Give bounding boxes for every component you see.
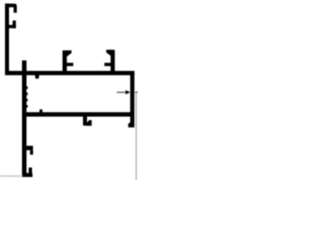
right wall: [130, 71, 134, 127]
right wall bottom hook: [128, 122, 131, 128]
glazing stub 1 mid arm: [66, 63, 73, 66]
faint neighbour profile line bottom-left: [0, 175, 23, 177]
mid wall (screw channel wall): [22, 60, 27, 177]
bottom C-channel bottom arm: [22, 173, 33, 177]
top C-channel top arm: [5, 4, 17, 13]
bump above second bar: [40, 109, 43, 112]
glazing stub 1 vertical: [63, 50, 67, 72]
glazing stub 2 vertical: [111, 50, 115, 73]
glazing stub 2 mid arm: [104, 63, 111, 66]
bottom C-channel bottom lip: [29, 168, 32, 174]
glazing stub 2 top barb: [106, 50, 112, 57]
serration nub 3: [26, 99, 28, 102]
dimension extension line: [136, 92, 137, 180]
glazing stub 1 top barb: [66, 50, 72, 57]
top C-channel bottom arm: [5, 25, 16, 28]
down stub below second bar: [83, 117, 87, 126]
left wall with top C-channel: [5, 4, 9, 75]
top C-channel bottom lip: [13, 21, 16, 29]
dimension tail right of wall: [134, 92, 138, 93]
short tick below main bar: [35, 75, 39, 79]
second horizontal bar: [22, 112, 131, 116]
main horizontal bar: [5, 71, 134, 75]
bottom C-channel top lip: [30, 150, 33, 155]
dimension arrowhead: [126, 90, 131, 94]
serration nub 2: [26, 93, 28, 96]
dimension line left of wall: [117, 92, 126, 93]
down stub barb: [86, 120, 92, 126]
serration nub 4: [26, 105, 28, 108]
bottom C-channel top arm: [22, 146, 33, 150]
serration nub 1: [26, 86, 28, 89]
